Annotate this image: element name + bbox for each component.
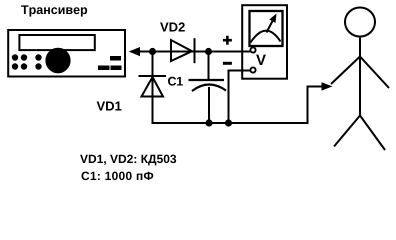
- caption diodes: [80, 155, 176, 166]
- diode VD1 triangle: [142, 77, 164, 97]
- arrow to person: [322, 82, 333, 90]
- voltmeter terminal plus: [250, 47, 255, 52]
- diode VD2 cathode bar: [194, 38, 196, 63]
- diode VD2 triangle: [171, 40, 192, 61]
- voltmeter dial window: [250, 11, 283, 46]
- person left leg: [334, 116, 360, 147]
- voltmeter needle arrowhead: [269, 14, 276, 24]
- voltmeter scale arc: [251, 31, 281, 43]
- voltmeter needle: [267, 20, 274, 33]
- person head: [345, 8, 375, 37]
- arrow to transceiver: [129, 47, 140, 56]
- transceiver enclosure: [8, 30, 125, 77]
- wire VD1 branch: [152, 52, 154, 124]
- transceiver buttons: [12, 54, 42, 69]
- label VD1: [97, 102, 122, 111]
- diode VD1 cathode bar: [139, 75, 167, 77]
- label Трансивер: [21, 5, 87, 16]
- node junction C1: [205, 48, 212, 55]
- voltmeter body: [242, 5, 287, 79]
- caption capacitor: [81, 172, 153, 181]
- label C1: [168, 77, 183, 86]
- wire C1 top lead: [208, 52, 210, 80]
- person right leg: [360, 116, 385, 151]
- node junction minus wire bottom: [225, 119, 232, 126]
- wire meter minus return: [229, 71, 251, 124]
- voltmeter terminal minus: [250, 67, 255, 72]
- wire bottom rail: [152, 122, 309, 124]
- person body: [359, 37, 361, 116]
- label VD2: [160, 22, 185, 31]
- capacitor C1 bottom curved plate: [192, 85, 226, 91]
- wire C1 bottom lead: [208, 87, 210, 123]
- person right arm: [360, 57, 389, 89]
- person left arm: [331, 57, 360, 85]
- transceiver display: [19, 35, 94, 50]
- transceiver switches: [98, 56, 122, 70]
- node junction C1 bottom: [205, 119, 212, 126]
- label V: [256, 55, 266, 65]
- capacitor C1 top plate: [189, 79, 225, 81]
- wire to person: [308, 87, 324, 124]
- transceiver tuning knob: [45, 48, 70, 74]
- wire main line to meter plus: [131, 51, 250, 53]
- label minus: [223, 62, 232, 65]
- node junction VD1: [149, 48, 156, 55]
- label plus: [223, 36, 232, 45]
